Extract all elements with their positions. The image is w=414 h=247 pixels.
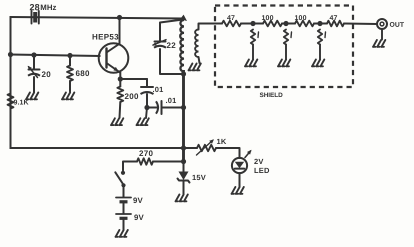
ground for shunt 3 <box>312 60 324 67</box>
wire 22-cap top connection <box>160 20 183 42</box>
wire collector to top rail <box>119 18 121 44</box>
label .01 coupling <box>165 96 176 105</box>
label 9.1K <box>13 100 28 107</box>
svg-text:47: 47 <box>329 15 337 22</box>
capacitor .01 bypass (vertical) <box>141 87 154 94</box>
shield enclosure (dashed box) <box>215 6 353 88</box>
switch S1 <box>115 171 125 188</box>
diode D1 zener 15V <box>178 172 190 183</box>
svg-text:9.1K: 9.1K <box>13 100 28 107</box>
wire secondary top lead <box>199 24 223 30</box>
wire attenuator output <box>344 23 377 26</box>
resistor shunt 1 <box>251 30 255 45</box>
wire shunt 2 lead <box>285 45 287 60</box>
ground for secondary <box>189 64 201 71</box>
svg-text:.01: .01 <box>152 85 163 94</box>
transistor collector lead inside <box>107 44 120 53</box>
wire attenuator seg3 <box>314 23 327 25</box>
resistor 47 (first series) <box>222 21 241 27</box>
node base rail / left vertical junction <box>8 52 13 57</box>
label 200 <box>124 92 139 101</box>
wire jack ground lead <box>381 29 383 40</box>
tick mark shunt 3 <box>324 32 327 38</box>
label .01 bypass <box>152 85 163 94</box>
svg-text:OUT: OUT <box>389 22 404 29</box>
label 22 <box>166 41 176 50</box>
wire 1K to LED <box>216 148 240 158</box>
node A bottom rail junction <box>181 145 186 150</box>
ground for shunt 2 <box>278 60 290 67</box>
wire emitter lead down <box>119 72 121 79</box>
wire top rail <box>11 17 184 19</box>
transistor emitter lead inside <box>107 63 120 72</box>
tick mark shunt 1 <box>257 32 260 38</box>
svg-text:SHIELD: SHIELD <box>259 92 283 99</box>
ground for LED <box>232 187 244 194</box>
wire left vertical (top rail to base rail) <box>10 17 12 55</box>
svg-text:100: 100 <box>294 15 306 22</box>
wire bypass cap bottom lead <box>146 94 148 108</box>
wire attenuator seg2 <box>282 23 295 25</box>
LED emission arrow <box>245 150 252 158</box>
ground for 200 <box>111 118 123 125</box>
resistor 9.1K <box>8 94 14 109</box>
node shunt 3 tap <box>317 21 322 26</box>
wire shunt 1 lead <box>252 45 254 60</box>
node bypass/coupling junction <box>144 105 149 110</box>
wire 1K rail <box>184 147 198 149</box>
ground for battery <box>116 230 128 237</box>
label 1K <box>216 137 226 146</box>
svg-text:200: 200 <box>124 92 139 101</box>
wire secondary bottom lead <box>199 57 200 63</box>
node coupling cap to tank line <box>181 105 186 110</box>
wire 270 rail right <box>153 161 184 163</box>
ground for zener <box>176 195 188 202</box>
capacitor .01 coupling (horizontal) <box>156 101 162 114</box>
wire coupling cap right lead <box>162 107 184 109</box>
node emitter junction <box>118 76 123 81</box>
label 100 second <box>261 15 273 22</box>
label 20 <box>41 70 51 79</box>
crystal Y1 28MHz <box>32 11 39 24</box>
wire LED cathode lead <box>239 173 241 186</box>
inductor L2 secondary link coil <box>195 30 198 58</box>
resistor 100 (third series) <box>295 21 314 27</box>
node B 270 rail junction <box>181 159 186 164</box>
battery B2 9V <box>116 214 131 218</box>
node collector on top rail <box>117 15 122 20</box>
wire zener top lead <box>183 162 185 172</box>
wire zener bottom lead <box>183 181 185 195</box>
wire coupling cap left lead <box>147 107 157 109</box>
svg-text:20: 20 <box>41 70 51 79</box>
label 47 fourth <box>329 15 337 22</box>
resistor shunt 3 <box>318 30 322 45</box>
transistor base bar <box>105 49 107 68</box>
label 9V battery1 <box>133 196 144 205</box>
wire battery to ground <box>123 219 125 230</box>
ground for shunt 1 <box>245 60 257 67</box>
connector J1 OUT <box>377 19 387 29</box>
tick mark shunt 2 <box>290 32 293 38</box>
wire switch to battery <box>123 185 125 197</box>
wire bypass cap top lead <box>146 79 148 87</box>
wire 20-cap bottom lead <box>33 77 35 92</box>
battery B1 9V <box>116 198 131 202</box>
resistor 200 <box>117 87 123 103</box>
wire left vertical (base rail to bottom rail) <box>10 55 12 149</box>
wire between batteries <box>123 202 125 214</box>
svg-text:HEP53: HEP53 <box>92 33 119 42</box>
arrow junction at coil top <box>180 15 187 21</box>
ground for 680 <box>62 93 74 100</box>
label 270 <box>139 149 154 158</box>
label 15V <box>192 173 206 182</box>
label 100 third <box>294 15 306 22</box>
resistor 680 <box>67 66 73 82</box>
node coil bottom / 22 cap junction <box>181 71 186 76</box>
label SHIELD <box>259 92 283 99</box>
wire 20-cap top lead <box>33 55 35 69</box>
label LED <box>254 166 270 175</box>
svg-text:9V: 9V <box>133 196 144 205</box>
svg-text:28: 28 <box>29 2 39 12</box>
capacitor C2 22 (trimmer) <box>152 40 166 48</box>
transistor emitter arrow <box>113 67 118 72</box>
ground for 20 cap <box>26 93 38 100</box>
wire shunt 3 lead <box>319 45 321 60</box>
inductor L1 primary coil <box>180 20 184 72</box>
label 47 first <box>227 15 235 22</box>
wire 22-cap bottom lead <box>160 49 184 74</box>
svg-text:.01: .01 <box>165 96 176 105</box>
label 2V <box>254 157 264 166</box>
wire 680 bottom lead <box>69 81 71 92</box>
wire 270 rail left / switch corner <box>123 162 137 171</box>
resistor 47 (fourth series) <box>327 21 344 27</box>
ground for bypass cap <box>137 108 149 126</box>
svg-text:2V: 2V <box>254 157 264 166</box>
capacitor C1 20 (trimmer) <box>28 66 40 78</box>
wire 200 bottom lead <box>119 102 122 118</box>
wire base rail <box>11 55 100 57</box>
label 28MHz <box>29 2 56 12</box>
wire bottom rail <box>11 147 184 149</box>
svg-text:MHz: MHz <box>40 3 56 12</box>
label OUT <box>389 22 404 29</box>
node shunt 1 tap <box>250 21 255 26</box>
svg-text:100: 100 <box>261 15 273 22</box>
svg-text:LED: LED <box>254 166 270 175</box>
resistor 100 (second series) <box>263 21 282 27</box>
resistor 270 <box>137 158 153 164</box>
wire emitter rail to bypass cap <box>120 78 147 80</box>
svg-text:22: 22 <box>166 41 176 50</box>
node 680 tap on base rail <box>67 53 72 58</box>
svg-text:47: 47 <box>227 15 235 22</box>
node 20-cap tap on base rail <box>31 52 36 57</box>
wire 680 top lead <box>69 56 71 66</box>
label 9V battery2 <box>134 213 145 222</box>
svg-text:15V: 15V <box>192 173 206 182</box>
resistor 1K (variable) <box>197 145 216 151</box>
LED D2 body <box>232 158 247 173</box>
svg-text:680: 680 <box>75 69 90 78</box>
resistor shunt 2 <box>284 30 288 45</box>
svg-text:270: 270 <box>139 149 154 158</box>
wire 200 top lead <box>119 79 121 87</box>
svg-text:9V: 9V <box>134 213 145 222</box>
wire attenuator seg1 <box>241 23 263 25</box>
arrow through 1K <box>197 139 215 155</box>
node shunt 2 tap <box>283 21 288 26</box>
svg-text:1K: 1K <box>216 137 226 146</box>
transistor Q1 HEP53 body <box>99 43 129 73</box>
ground for jack <box>373 40 385 47</box>
label 680 <box>75 69 90 78</box>
label HEP53 <box>92 33 119 42</box>
wire main vertical heavy <box>182 72 185 162</box>
